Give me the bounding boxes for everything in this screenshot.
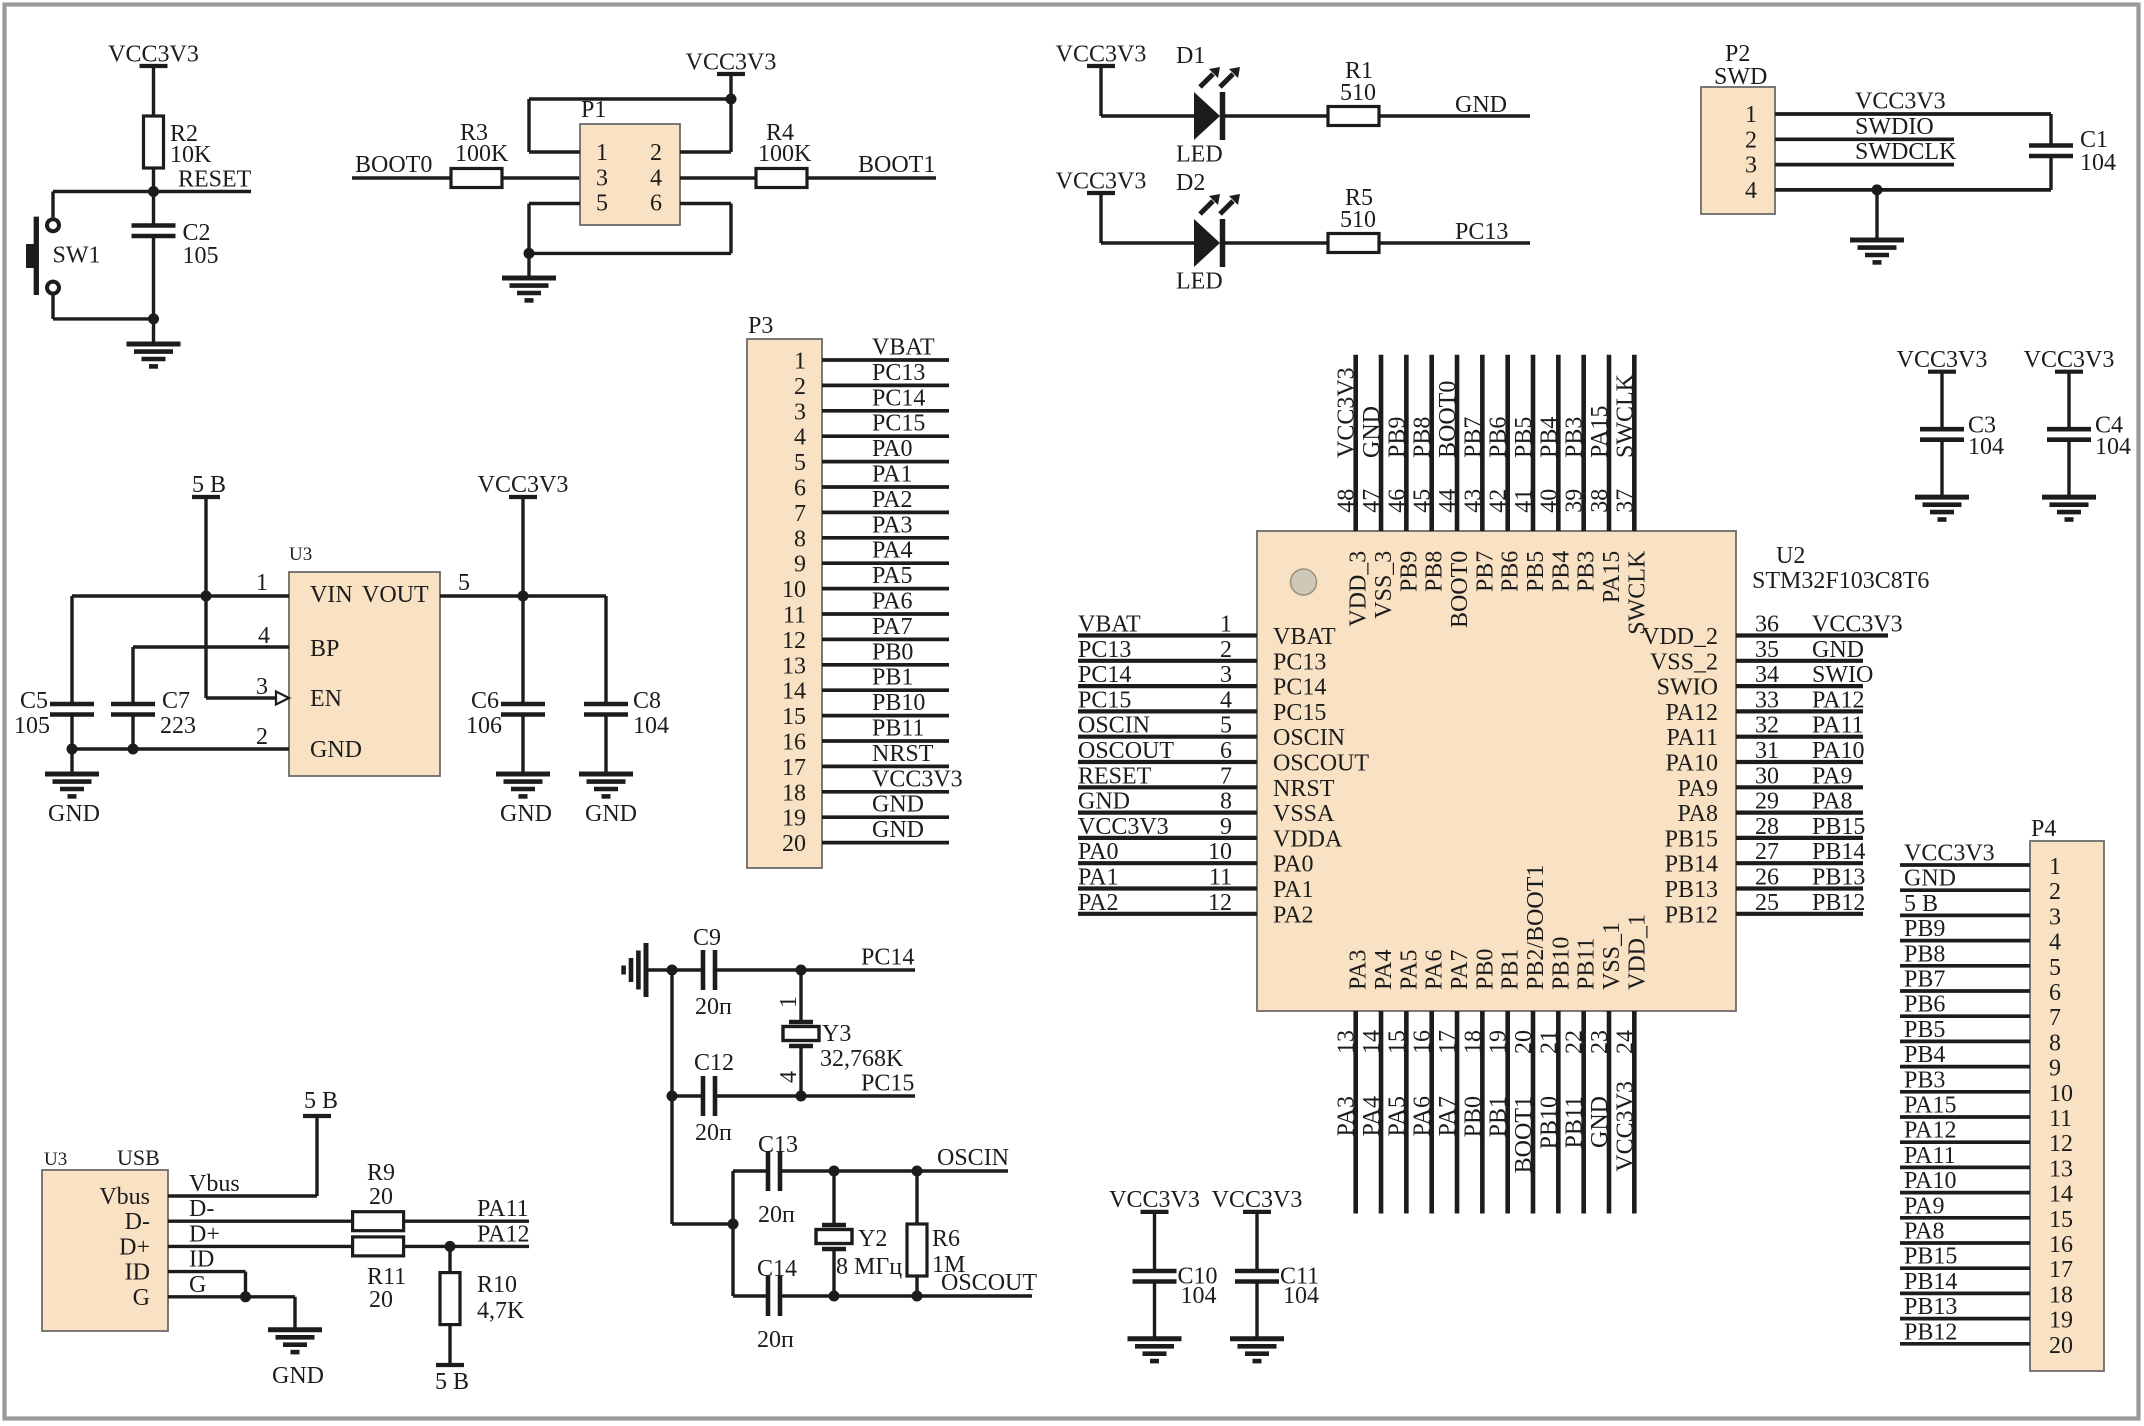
svg-text:C9: C9 bbox=[693, 925, 721, 951]
svg-text:6: 6 bbox=[2049, 980, 2061, 1006]
svg-text:2: 2 bbox=[1220, 637, 1232, 663]
svg-text:GND: GND bbox=[1455, 92, 1507, 118]
svg-text:1: 1 bbox=[1220, 612, 1232, 638]
svg-text:10: 10 bbox=[782, 577, 806, 603]
svg-text:34: 34 bbox=[1755, 662, 1779, 688]
svg-text:SWCLK: SWCLK bbox=[1624, 550, 1650, 635]
svg-text:20п: 20п bbox=[758, 1202, 795, 1228]
svg-text:PA8: PA8 bbox=[1678, 801, 1718, 827]
svg-text:U3: U3 bbox=[44, 1149, 67, 1170]
svg-text:R10: R10 bbox=[477, 1272, 517, 1298]
svg-text:GND: GND bbox=[1904, 866, 1956, 892]
svg-text:8: 8 bbox=[1220, 789, 1232, 815]
svg-text:21: 21 bbox=[1536, 1030, 1562, 1054]
svg-text:PB11: PB11 bbox=[1574, 938, 1600, 990]
svg-text:PB0: PB0 bbox=[1460, 1096, 1486, 1137]
svg-text:PB12: PB12 bbox=[1665, 902, 1718, 928]
svg-text:30: 30 bbox=[1755, 763, 1779, 789]
svg-text:104: 104 bbox=[633, 713, 669, 739]
svg-text:11: 11 bbox=[1209, 865, 1232, 891]
svg-text:PA6: PA6 bbox=[1410, 1096, 1436, 1136]
svg-text:4: 4 bbox=[1220, 687, 1232, 713]
svg-text:104: 104 bbox=[1968, 434, 2004, 460]
svg-text:4: 4 bbox=[1745, 178, 1757, 204]
svg-text:PB0: PB0 bbox=[1472, 949, 1498, 990]
svg-text:PB8: PB8 bbox=[1410, 417, 1436, 458]
svg-text:PA15: PA15 bbox=[1587, 406, 1613, 458]
svg-text:5 B: 5 B bbox=[435, 1369, 469, 1395]
svg-text:1: 1 bbox=[256, 570, 268, 596]
svg-text:PB4: PB4 bbox=[1536, 417, 1562, 458]
svg-text:OSCOUT: OSCOUT bbox=[1273, 751, 1369, 777]
svg-text:PB5: PB5 bbox=[1511, 417, 1537, 458]
svg-text:EN: EN bbox=[310, 686, 342, 712]
svg-text:OSCIN: OSCIN bbox=[1273, 725, 1345, 751]
svg-text:PA1: PA1 bbox=[1273, 877, 1313, 903]
svg-text:PB12: PB12 bbox=[1812, 890, 1865, 916]
svg-text:VCC3V3: VCC3V3 bbox=[1056, 42, 1147, 68]
svg-text:VCC3V3: VCC3V3 bbox=[1904, 841, 1995, 867]
svg-text:VCC3V3: VCC3V3 bbox=[872, 766, 963, 792]
svg-text:GND: GND bbox=[872, 792, 924, 818]
svg-text:20: 20 bbox=[369, 1287, 393, 1313]
svg-text:4,7K: 4,7K bbox=[477, 1298, 525, 1324]
svg-text:VCC3V3: VCC3V3 bbox=[108, 42, 199, 68]
svg-text:PB15: PB15 bbox=[1904, 1244, 1957, 1270]
svg-text:PC13: PC13 bbox=[1273, 649, 1326, 675]
svg-text:VCC3V3: VCC3V3 bbox=[1078, 814, 1169, 840]
svg-text:104: 104 bbox=[1181, 1283, 1217, 1309]
svg-text:SWIO: SWIO bbox=[1812, 662, 1873, 688]
svg-text:PB4: PB4 bbox=[1548, 551, 1574, 592]
svg-text:U3: U3 bbox=[289, 544, 312, 565]
svg-text:22: 22 bbox=[1562, 1030, 1588, 1054]
svg-text:5 B: 5 B bbox=[192, 472, 226, 498]
svg-text:10: 10 bbox=[2049, 1081, 2073, 1107]
svg-text:13: 13 bbox=[1334, 1030, 1360, 1054]
svg-text:12: 12 bbox=[782, 628, 806, 654]
svg-text:P1: P1 bbox=[581, 97, 606, 123]
svg-text:43: 43 bbox=[1460, 489, 1486, 513]
svg-text:1: 1 bbox=[794, 349, 806, 375]
svg-text:GND: GND bbox=[1812, 637, 1864, 663]
svg-text:VCC3V3: VCC3V3 bbox=[1056, 169, 1147, 195]
svg-text:VOUT: VOUT bbox=[362, 582, 429, 608]
svg-text:7: 7 bbox=[794, 501, 806, 527]
svg-text:PA9: PA9 bbox=[1678, 776, 1718, 802]
svg-text:SWDIO: SWDIO bbox=[1855, 114, 1934, 140]
svg-text:VCC3V3: VCC3V3 bbox=[1855, 89, 1946, 115]
svg-text:6: 6 bbox=[1220, 738, 1232, 764]
svg-text:223: 223 bbox=[160, 713, 196, 739]
svg-text:19: 19 bbox=[1486, 1030, 1512, 1054]
svg-text:5: 5 bbox=[596, 191, 608, 217]
svg-text:PC14: PC14 bbox=[872, 385, 925, 411]
svg-text:BP: BP bbox=[310, 636, 339, 662]
svg-text:NRST: NRST bbox=[1273, 776, 1335, 802]
svg-text:PC14: PC14 bbox=[861, 945, 914, 971]
svg-text:PA0: PA0 bbox=[872, 436, 912, 462]
svg-text:VSSA: VSSA bbox=[1273, 801, 1335, 827]
svg-text:41: 41 bbox=[1511, 489, 1537, 513]
svg-text:PB8: PB8 bbox=[1904, 941, 1945, 967]
svg-text:100K: 100K bbox=[758, 141, 812, 167]
svg-text:20: 20 bbox=[1511, 1030, 1537, 1054]
svg-text:PA5: PA5 bbox=[1384, 1096, 1410, 1136]
svg-text:GND: GND bbox=[48, 801, 100, 827]
svg-text:17: 17 bbox=[782, 755, 806, 781]
svg-text:D2: D2 bbox=[1176, 170, 1205, 196]
svg-text:P4: P4 bbox=[2031, 816, 2056, 842]
svg-text:PB12: PB12 bbox=[1904, 1319, 1957, 1345]
svg-text:GND: GND bbox=[585, 801, 637, 827]
svg-text:45: 45 bbox=[1410, 489, 1436, 513]
svg-text:29: 29 bbox=[1755, 789, 1779, 815]
svg-text:PA8: PA8 bbox=[1904, 1219, 1944, 1245]
svg-text:PB11: PB11 bbox=[1562, 1096, 1588, 1148]
svg-text:GND: GND bbox=[872, 817, 924, 843]
svg-text:32,768K: 32,768K bbox=[820, 1046, 904, 1072]
svg-text:47: 47 bbox=[1359, 489, 1385, 513]
svg-text:3: 3 bbox=[1220, 662, 1232, 688]
svg-text:PA9: PA9 bbox=[1904, 1193, 1944, 1219]
svg-text:PA6: PA6 bbox=[1422, 950, 1448, 990]
svg-text:11: 11 bbox=[783, 603, 806, 629]
svg-text:VDD_1: VDD_1 bbox=[1624, 914, 1650, 990]
svg-text:2: 2 bbox=[650, 140, 662, 166]
svg-text:PB6: PB6 bbox=[1904, 992, 1945, 1018]
svg-text:24: 24 bbox=[1612, 1030, 1638, 1054]
svg-text:PA7: PA7 bbox=[1435, 1096, 1461, 1136]
svg-text:18: 18 bbox=[2049, 1282, 2073, 1308]
svg-text:5: 5 bbox=[794, 450, 806, 476]
svg-text:PA12: PA12 bbox=[1812, 687, 1864, 713]
svg-text:PB14: PB14 bbox=[1812, 839, 1865, 865]
svg-text:17: 17 bbox=[2049, 1257, 2073, 1283]
svg-text:PB5: PB5 bbox=[1523, 551, 1549, 592]
svg-text:VDD_2: VDD_2 bbox=[1642, 624, 1718, 650]
svg-text:13: 13 bbox=[2049, 1156, 2073, 1182]
svg-text:35: 35 bbox=[1755, 637, 1779, 663]
svg-text:20: 20 bbox=[782, 831, 806, 857]
svg-text:100K: 100K bbox=[455, 141, 509, 167]
svg-text:PC15: PC15 bbox=[1273, 700, 1326, 726]
svg-text:2: 2 bbox=[256, 724, 268, 750]
svg-text:5 B: 5 B bbox=[1904, 891, 1938, 917]
svg-text:PC13: PC13 bbox=[872, 360, 925, 386]
svg-text:3: 3 bbox=[596, 165, 608, 191]
svg-text:PC15: PC15 bbox=[872, 411, 925, 437]
svg-text:PA4: PA4 bbox=[1359, 1096, 1385, 1136]
svg-text:VCC3V3: VCC3V3 bbox=[1897, 347, 1988, 373]
svg-text:PB7: PB7 bbox=[1460, 417, 1486, 458]
svg-text:P3: P3 bbox=[748, 313, 773, 339]
svg-text:PB10: PB10 bbox=[1548, 937, 1574, 990]
svg-text:PB13: PB13 bbox=[1665, 877, 1718, 903]
svg-text:14: 14 bbox=[1359, 1030, 1385, 1054]
svg-text:PB1: PB1 bbox=[872, 665, 913, 691]
svg-text:3: 3 bbox=[794, 399, 806, 425]
svg-text:PB14: PB14 bbox=[1904, 1269, 1957, 1295]
svg-text:VSS_2: VSS_2 bbox=[1650, 649, 1718, 675]
svg-text:PB13: PB13 bbox=[1812, 865, 1865, 891]
svg-text:105: 105 bbox=[14, 713, 50, 739]
svg-text:25: 25 bbox=[1755, 890, 1779, 916]
svg-text:4: 4 bbox=[794, 425, 806, 451]
svg-text:D+: D+ bbox=[189, 1221, 220, 1247]
svg-text:PC14: PC14 bbox=[1078, 662, 1131, 688]
svg-text:9: 9 bbox=[794, 552, 806, 578]
svg-text:PB9: PB9 bbox=[1904, 916, 1945, 942]
svg-text:PB10: PB10 bbox=[1536, 1096, 1562, 1149]
svg-text:106: 106 bbox=[466, 713, 502, 739]
svg-text:1: 1 bbox=[776, 996, 802, 1008]
svg-text:SWIO: SWIO bbox=[1657, 675, 1718, 701]
svg-text:PB10: PB10 bbox=[872, 690, 925, 716]
svg-text:10K: 10K bbox=[170, 142, 212, 168]
svg-text:42: 42 bbox=[1486, 489, 1512, 513]
svg-text:PA12: PA12 bbox=[1666, 700, 1718, 726]
svg-text:PA0: PA0 bbox=[1273, 852, 1313, 878]
svg-text:7: 7 bbox=[2049, 1005, 2061, 1031]
svg-text:9: 9 bbox=[1220, 814, 1232, 840]
svg-text:PB14: PB14 bbox=[1665, 852, 1718, 878]
svg-text:Vbus: Vbus bbox=[189, 1171, 240, 1197]
svg-text:5 B: 5 B bbox=[304, 1088, 338, 1114]
svg-text:2: 2 bbox=[1745, 127, 1757, 153]
svg-text:104: 104 bbox=[2095, 434, 2131, 460]
svg-text:17: 17 bbox=[1435, 1030, 1461, 1054]
svg-text:PB1: PB1 bbox=[1486, 1096, 1512, 1137]
svg-text:SW1: SW1 bbox=[53, 243, 101, 269]
svg-text:16: 16 bbox=[782, 730, 806, 756]
svg-text:33: 33 bbox=[1755, 687, 1779, 713]
svg-text:12: 12 bbox=[2049, 1131, 2073, 1157]
svg-text:PB7: PB7 bbox=[1472, 551, 1498, 592]
svg-text:18: 18 bbox=[1460, 1030, 1486, 1054]
svg-text:PA10: PA10 bbox=[1812, 738, 1864, 764]
svg-text:11: 11 bbox=[2049, 1106, 2072, 1132]
svg-text:PA11: PA11 bbox=[477, 1196, 529, 1222]
svg-text:16: 16 bbox=[2049, 1232, 2073, 1258]
svg-text:PA1: PA1 bbox=[1078, 865, 1118, 891]
svg-text:GND: GND bbox=[500, 801, 552, 827]
svg-text:PA12: PA12 bbox=[1904, 1118, 1956, 1144]
svg-text:PA3: PA3 bbox=[1334, 1096, 1360, 1136]
svg-text:C6: C6 bbox=[471, 688, 499, 714]
svg-text:3: 3 bbox=[1745, 153, 1757, 179]
svg-text:31: 31 bbox=[1755, 738, 1779, 764]
svg-text:C7: C7 bbox=[162, 688, 190, 714]
svg-text:BOOT1: BOOT1 bbox=[1511, 1096, 1537, 1173]
svg-text:PB5: PB5 bbox=[1904, 1017, 1945, 1043]
svg-text:20п: 20п bbox=[695, 994, 732, 1020]
svg-text:VSS_1: VSS_1 bbox=[1599, 922, 1625, 990]
svg-text:14: 14 bbox=[782, 679, 806, 705]
svg-text:PB0: PB0 bbox=[872, 639, 913, 665]
svg-text:16: 16 bbox=[1410, 1030, 1436, 1054]
svg-text:C12: C12 bbox=[694, 1050, 734, 1076]
svg-text:26: 26 bbox=[1755, 865, 1779, 891]
svg-text:PA3: PA3 bbox=[872, 512, 912, 538]
svg-text:PA6: PA6 bbox=[872, 589, 912, 615]
svg-text:GND: GND bbox=[1078, 789, 1130, 815]
svg-text:PA4: PA4 bbox=[872, 538, 912, 564]
svg-text:PB15: PB15 bbox=[1812, 814, 1865, 840]
svg-text:R6: R6 bbox=[932, 1226, 960, 1252]
svg-text:VBAT: VBAT bbox=[1273, 624, 1336, 650]
svg-text:13: 13 bbox=[782, 653, 806, 679]
svg-text:12: 12 bbox=[1208, 890, 1232, 916]
svg-text:PA15: PA15 bbox=[1599, 551, 1625, 603]
svg-text:104: 104 bbox=[2080, 150, 2116, 176]
svg-text:105: 105 bbox=[183, 243, 219, 269]
svg-text:GND: GND bbox=[272, 1363, 324, 1389]
svg-text:15: 15 bbox=[782, 704, 806, 730]
svg-text:32: 32 bbox=[1755, 713, 1779, 739]
svg-text:PC15: PC15 bbox=[861, 1071, 914, 1097]
svg-text:27: 27 bbox=[1755, 839, 1779, 865]
svg-text:VSS_3: VSS_3 bbox=[1371, 551, 1397, 619]
svg-text:18: 18 bbox=[782, 780, 806, 806]
svg-text:PA1: PA1 bbox=[872, 462, 912, 488]
svg-text:104: 104 bbox=[1283, 1283, 1319, 1309]
svg-text:OSCIN: OSCIN bbox=[937, 1145, 1009, 1171]
svg-text:RESET: RESET bbox=[178, 167, 252, 193]
svg-text:ID: ID bbox=[125, 1260, 150, 1286]
svg-text:3: 3 bbox=[256, 674, 268, 700]
svg-text:PA0: PA0 bbox=[1078, 839, 1118, 865]
svg-text:20: 20 bbox=[2049, 1333, 2073, 1359]
svg-text:PA2: PA2 bbox=[1078, 890, 1118, 916]
svg-text:PA15: PA15 bbox=[1904, 1093, 1956, 1119]
svg-text:PA8: PA8 bbox=[1812, 789, 1852, 815]
svg-text:PC13: PC13 bbox=[1078, 637, 1131, 663]
svg-text:GND: GND bbox=[1359, 406, 1385, 458]
svg-text:PB1: PB1 bbox=[1498, 949, 1524, 990]
svg-text:GND: GND bbox=[310, 737, 362, 763]
svg-text:PB6: PB6 bbox=[1486, 417, 1512, 458]
svg-text:8: 8 bbox=[2049, 1030, 2061, 1056]
svg-text:PB3: PB3 bbox=[1574, 551, 1600, 592]
svg-text:9: 9 bbox=[2049, 1056, 2061, 1082]
svg-text:40: 40 bbox=[1536, 489, 1562, 513]
svg-text:PB9: PB9 bbox=[1384, 417, 1410, 458]
svg-text:6: 6 bbox=[650, 191, 662, 217]
svg-text:VCC3V3: VCC3V3 bbox=[1334, 367, 1360, 458]
svg-text:VIN: VIN bbox=[310, 582, 353, 608]
svg-text:PA2: PA2 bbox=[1273, 902, 1313, 928]
svg-text:Vbus: Vbus bbox=[99, 1184, 150, 1210]
svg-text:14: 14 bbox=[2049, 1182, 2073, 1208]
svg-text:NRST: NRST bbox=[872, 741, 934, 767]
svg-text:STM32F103C8T6: STM32F103C8T6 bbox=[1752, 568, 1929, 594]
svg-text:4: 4 bbox=[258, 623, 270, 649]
svg-text:48: 48 bbox=[1334, 489, 1360, 513]
svg-text:510: 510 bbox=[1340, 80, 1376, 106]
svg-text:PA7: PA7 bbox=[1447, 950, 1473, 990]
svg-text:Y2: Y2 bbox=[858, 1226, 887, 1252]
svg-text:19: 19 bbox=[2049, 1308, 2073, 1334]
svg-text:D+: D+ bbox=[119, 1234, 150, 1260]
svg-text:PA10: PA10 bbox=[1904, 1168, 1956, 1194]
svg-text:PA12: PA12 bbox=[477, 1222, 529, 1248]
svg-text:PA5: PA5 bbox=[1396, 950, 1422, 990]
svg-text:37: 37 bbox=[1612, 489, 1638, 513]
svg-text:BOOT1: BOOT1 bbox=[858, 152, 935, 178]
svg-text:PA10: PA10 bbox=[1666, 751, 1718, 777]
svg-text:5: 5 bbox=[1220, 713, 1232, 739]
svg-text:OSCOUT: OSCOUT bbox=[1078, 738, 1174, 764]
svg-text:39: 39 bbox=[1562, 489, 1588, 513]
svg-text:PA2: PA2 bbox=[872, 487, 912, 513]
svg-text:VCC3V3: VCC3V3 bbox=[686, 50, 777, 76]
svg-text:VCC3V3: VCC3V3 bbox=[1109, 1187, 1200, 1213]
svg-text:1: 1 bbox=[1745, 102, 1757, 128]
svg-text:6: 6 bbox=[794, 476, 806, 502]
svg-text:15: 15 bbox=[1384, 1030, 1410, 1054]
svg-text:2: 2 bbox=[794, 374, 806, 400]
svg-text:5: 5 bbox=[458, 570, 470, 596]
svg-text:C8: C8 bbox=[633, 688, 661, 714]
svg-text:D1: D1 bbox=[1176, 43, 1205, 69]
svg-text:BOOT0: BOOT0 bbox=[1435, 381, 1461, 458]
svg-text:PB15: PB15 bbox=[1665, 826, 1718, 852]
svg-text:VCC3V3: VCC3V3 bbox=[1212, 1187, 1303, 1213]
svg-text:8: 8 bbox=[794, 526, 806, 552]
svg-text:BOOT0: BOOT0 bbox=[355, 152, 432, 178]
svg-text:PB2/BOOT1: PB2/BOOT1 bbox=[1523, 865, 1549, 990]
svg-text:PB8: PB8 bbox=[1422, 551, 1448, 592]
svg-text:OSCOUT: OSCOUT bbox=[941, 1270, 1037, 1296]
svg-text:PA9: PA9 bbox=[1812, 763, 1852, 789]
svg-text:VCC3V3: VCC3V3 bbox=[478, 472, 569, 498]
svg-text:15: 15 bbox=[2049, 1207, 2073, 1233]
svg-text:OSCIN: OSCIN bbox=[1078, 713, 1150, 739]
svg-text:SWCLK: SWCLK bbox=[1612, 373, 1638, 458]
svg-text:LED: LED bbox=[1176, 142, 1223, 168]
svg-text:20п: 20п bbox=[757, 1327, 794, 1353]
svg-text:23: 23 bbox=[1587, 1030, 1613, 1054]
svg-text:20: 20 bbox=[369, 1184, 393, 1210]
svg-text:1: 1 bbox=[2049, 854, 2061, 880]
svg-text:44: 44 bbox=[1435, 489, 1461, 513]
svg-text:PA3: PA3 bbox=[1346, 950, 1372, 990]
svg-text:Y3: Y3 bbox=[822, 1021, 851, 1047]
svg-text:PA5: PA5 bbox=[872, 563, 912, 589]
svg-text:U2: U2 bbox=[1776, 543, 1805, 569]
svg-text:VBAT: VBAT bbox=[1078, 612, 1141, 638]
svg-text:8 МГц: 8 МГц bbox=[836, 1254, 902, 1280]
svg-text:PC13: PC13 bbox=[1455, 219, 1508, 245]
svg-text:PA11: PA11 bbox=[1904, 1143, 1956, 1169]
svg-text:PA4: PA4 bbox=[1371, 950, 1397, 990]
svg-text:PA7: PA7 bbox=[872, 614, 912, 640]
svg-text:VDDA: VDDA bbox=[1273, 826, 1343, 852]
svg-text:VDD_3: VDD_3 bbox=[1346, 551, 1372, 627]
svg-text:7: 7 bbox=[1220, 763, 1232, 789]
svg-text:ID: ID bbox=[189, 1247, 214, 1273]
svg-text:C13: C13 bbox=[758, 1132, 798, 1158]
svg-text:3: 3 bbox=[2049, 904, 2061, 930]
svg-text:C5: C5 bbox=[20, 688, 48, 714]
svg-text:38: 38 bbox=[1587, 489, 1613, 513]
svg-text:PB3: PB3 bbox=[1904, 1067, 1945, 1093]
svg-text:PB7: PB7 bbox=[1904, 967, 1945, 993]
svg-text:VCC3V3: VCC3V3 bbox=[2024, 347, 2115, 373]
svg-text:VBAT: VBAT bbox=[872, 335, 935, 361]
svg-text:PC15: PC15 bbox=[1078, 687, 1131, 713]
